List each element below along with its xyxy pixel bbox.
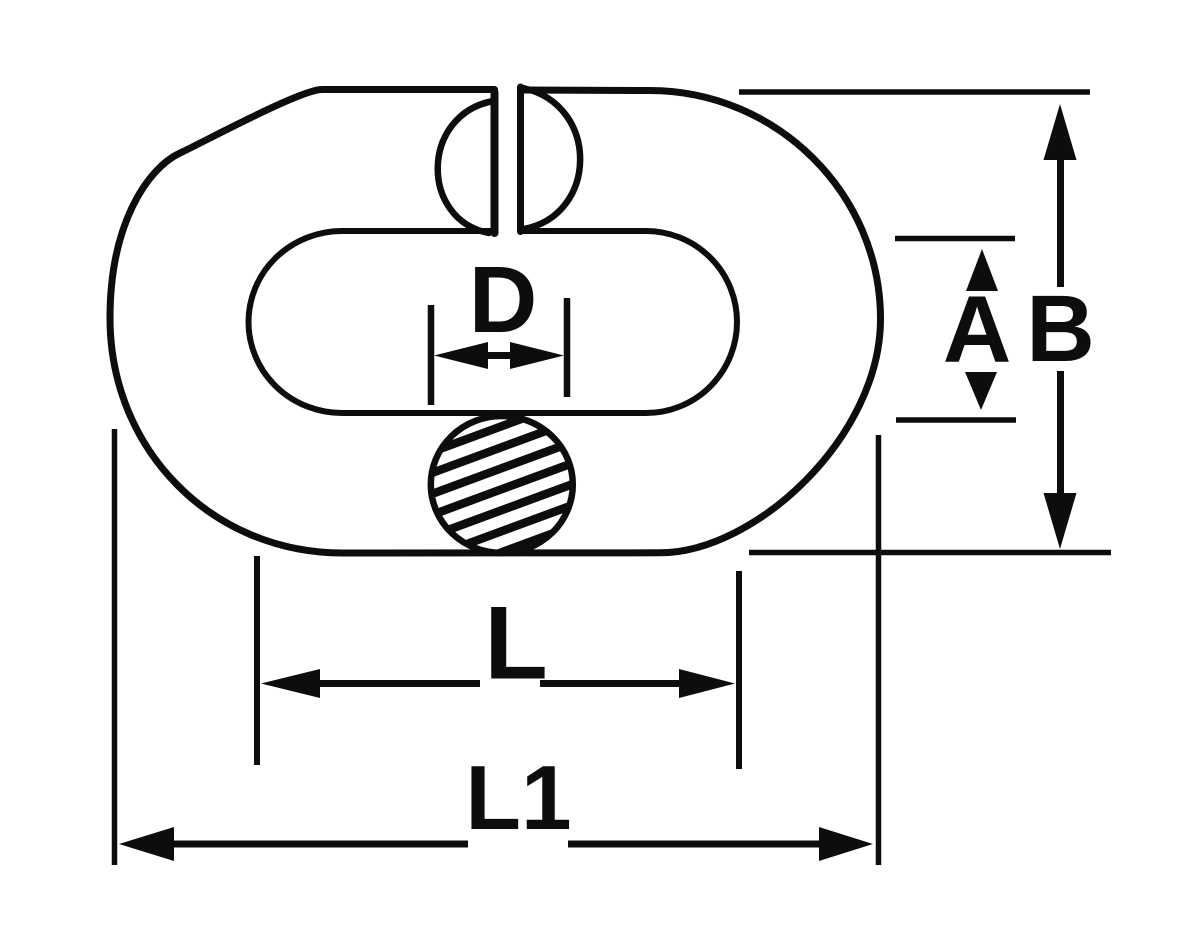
L dimension [257, 556, 739, 769]
B top extension line [739, 89, 1090, 95]
D dimension [431, 298, 567, 405]
B dimension line upper segment [1057, 158, 1064, 287]
L1 dimension [115, 429, 879, 865]
D left tick [428, 305, 435, 405]
svg-text:L: L [484, 586, 548, 702]
A bottom extension line [896, 417, 1016, 423]
B up arrowhead [1044, 104, 1077, 160]
L1 dimension line left segment [174, 841, 468, 848]
right end-cap half circle [523, 88, 580, 229]
outer link contour [110, 90, 881, 554]
L1 right extension line [876, 435, 882, 865]
D right arrowhead [510, 342, 564, 369]
svg-text:D: D [469, 247, 538, 353]
L dimension line right segment [540, 680, 681, 687]
B bottom extension line [749, 550, 1111, 556]
A dimension [895, 239, 1016, 421]
D left arrowhead [434, 342, 488, 369]
A up arrowhead [966, 249, 998, 291]
left cut vertical [491, 93, 499, 234]
B down arrowhead [1044, 493, 1077, 549]
left end-cap half circle [438, 101, 493, 233]
L1 right arrowhead [819, 827, 873, 861]
right cut vertical [517, 87, 524, 232]
svg-text:L1: L1 [465, 748, 571, 849]
svg-text:A: A [943, 277, 1012, 383]
A top extension line [895, 236, 1015, 242]
D centre bar [484, 352, 514, 359]
hatched wire cross-section circle [410, 390, 600, 628]
L1 dimension line right segment [568, 841, 822, 848]
L left extension line [254, 556, 260, 765]
inner link contour (hole) [249, 231, 738, 413]
svg-text:B: B [1026, 276, 1095, 382]
L left arrowhead [261, 669, 320, 698]
L right extension line [736, 571, 742, 769]
L dimension line left segment [318, 680, 480, 687]
L right arrowhead [679, 669, 735, 698]
L1 left extension line [112, 429, 118, 865]
B dimension line lower segment [1057, 371, 1064, 495]
B dimension [739, 92, 1111, 553]
D right tick [564, 298, 571, 397]
L1 left arrowhead [119, 827, 174, 861]
A down arrowhead [965, 372, 997, 410]
